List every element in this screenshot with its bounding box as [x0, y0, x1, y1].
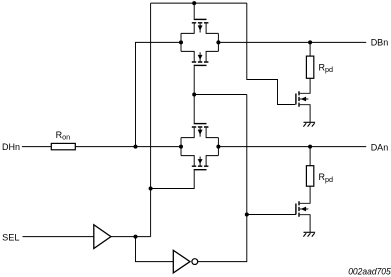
wire: Q2 gate lead: [247, 214, 296, 216]
TG2 left post: [180, 138, 182, 156]
transistor Q2 (DAn pull-down NMOS): [296, 201, 310, 232]
bulk stub + arrow: [199, 128, 201, 137]
TG1 left post: [180, 33, 182, 51]
node: buffer output branch to inverter: [134, 235, 138, 239]
node: TG2 left: [179, 145, 183, 149]
wire: inverter output right and up (inverter net vertical): [198, 95, 247, 262]
caps: [192, 126, 209, 128]
bulk stub + arrow: [300, 98, 309, 100]
ground (DBn pull-down): [303, 122, 315, 126]
gate lead down-left: [151, 170, 195, 188]
caps (drain / bulk / source contacts): [192, 22, 209, 24]
caps: [298, 91, 300, 107]
caps: [192, 61, 209, 63]
source lead down: [300, 215, 310, 232]
wire: DBn output line: [218, 41, 366, 43]
gate bar: [194, 169, 207, 171]
node: inverter net tap on TG1-NMOS/TG2-PMOS gate line: [192, 93, 196, 97]
bulk stub + arrow: [199, 157, 201, 166]
wire: left vertical (buffer output up to top rail): [150, 3, 152, 237]
channel right lead: [206, 24, 218, 34]
wire: inverter net horizontal to right vertical: [194, 94, 247, 96]
resistor Ron: [51, 143, 75, 149]
gate lead: [193, 3, 195, 19]
wire: DHn branch vertical up to TG1: [136, 42, 182, 146]
node: buffer net tap to TG2 NMOS gate: [149, 187, 153, 191]
gate bar: [295, 94, 297, 105]
wire: DAn line down to Rpd: [309, 147, 311, 166]
wire: Rpd to pulldown NMOS drain: [300, 78, 310, 93]
node: TG1 right: [216, 40, 220, 44]
node: DHn branch: [134, 145, 138, 149]
wire: DHn lead-in: [22, 146, 51, 148]
TG2 right post: [217, 138, 219, 156]
gate bar: [194, 123, 207, 125]
wire: buffer output to left vertical: [111, 236, 151, 238]
TG1 right post: [217, 33, 219, 51]
wire: SEL lead-in: [23, 236, 94, 238]
caps: [298, 201, 300, 217]
transmission gate TG2 PMOS (upper device): [181, 124, 218, 138]
channel left lead: [181, 24, 194, 34]
gate bar: [194, 18, 207, 20]
transmission gate TG1 NMOS (lower device): [181, 51, 218, 65]
node: DBn pulldown tap: [308, 40, 312, 44]
ground (DAn pull-down): [303, 232, 315, 236]
wire: TG1 NMOS gate down to TG2 PMOS gate: [193, 66, 195, 123]
svg-text:DBn: DBn: [371, 37, 389, 47]
channel right lead: [206, 156, 218, 166]
node: TG2 right: [216, 145, 220, 149]
channel left lead: [181, 128, 194, 138]
transistor Q1 (DBn pull-down NMOS): [296, 91, 310, 122]
bulk stub + arrow: [300, 208, 309, 210]
resistor Rpd (DAn pull-down): [306, 166, 313, 187]
svg-text:SEL: SEL: [2, 232, 19, 242]
buffer (non-inverting): [94, 225, 111, 249]
svg-text:DAn: DAn: [371, 142, 389, 152]
resistor Rpd (DBn pull-down): [306, 56, 313, 78]
caps: [192, 165, 209, 167]
wire: branch down to inverter input: [136, 237, 174, 262]
wire: top gate rail: [151, 2, 247, 4]
svg-text:DHn: DHn: [2, 142, 20, 152]
node: top rail junction to TG1 PMOS gate: [192, 1, 196, 5]
transmission gate TG1 PMOS (upper device): [181, 3, 218, 33]
bulk stub + arrow (points away from gate): [199, 24, 201, 33]
node: DAn pulldown tap: [308, 145, 312, 149]
channel left lead: [181, 51, 194, 61]
node: inverter net tap to Q2 gate: [245, 213, 249, 217]
channel left lead: [181, 156, 194, 166]
svg-text:002aad705: 002aad705: [348, 266, 391, 276]
wire: Rpd to pulldown NMOS drain: [300, 186, 310, 203]
wire: DAn output line: [218, 146, 366, 148]
channel right lead: [206, 51, 218, 61]
source lead down: [300, 105, 310, 122]
wire: DBn line down to Rpd: [309, 42, 311, 56]
node: TG1 left: [179, 40, 183, 44]
inverter U1: [173, 250, 197, 273]
channel right lead: [206, 128, 218, 138]
wire: gate-rail jog to pulldown NMOS Q1 gate: [247, 3, 295, 104]
gate bar: [194, 64, 207, 66]
wire: Ron to TG2 left, with branch node: [75, 146, 181, 148]
gate bar: [295, 204, 297, 215]
bulk stub + arrow (points toward caps): [199, 52, 201, 61]
transmission gate TG2 NMOS (lower device): [151, 156, 219, 189]
